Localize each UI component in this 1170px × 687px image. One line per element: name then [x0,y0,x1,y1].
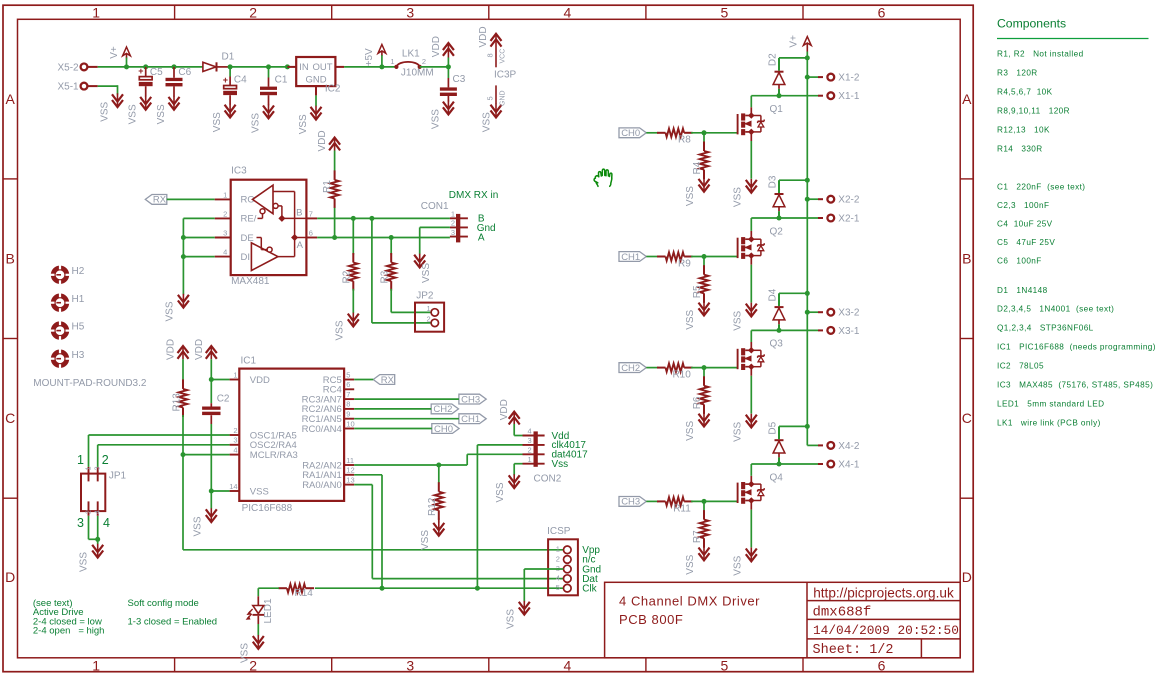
diode D2 [767,53,785,96]
wire R14 to LED1 [258,588,279,596]
connector ICSP [547,526,578,595]
ground VSS at C1 [251,105,275,134]
svg-text:A: A [6,91,16,107]
svg-text:D: D [5,569,15,585]
resistor R13 [171,359,187,454]
svg-text:C3: C3 [453,74,466,85]
ground VSS below C2 [192,508,217,536]
ground VSS at X5-1 [100,93,124,122]
svg-text:IC2 78L05: IC2 78L05 [997,362,1044,371]
label flag CH0 [619,128,646,139]
pad X4-1 [818,460,860,471]
capacitor C6 [166,67,192,97]
resistor R3 [380,238,396,313]
svg-text:14: 14 [229,482,237,491]
svg-text:3: 3 [95,466,102,470]
svg-text:CH0: CH0 [434,424,453,435]
svg-text:3: 3 [406,5,414,21]
svg-text:5: 5 [485,96,494,100]
svg-text:R5: R5 [692,285,703,298]
wire gate Q2 [691,254,738,259]
svg-text:IC1: IC1 [241,355,257,366]
svg-text:C5: C5 [150,67,163,78]
ground VSS at C6 [156,96,180,125]
title date [813,623,959,638]
capacitor C3 [440,67,466,102]
svg-text:C6: C6 [178,67,191,78]
pad X1-2 [818,73,860,84]
svg-text:4: 4 [223,248,227,257]
capacitor C2 [202,393,230,424]
wire D4 to V+ bus [779,292,807,294]
svg-text:D2,3,4,5 1N4001 (see text): D2,3,4,5 1N4001 (see text) [997,305,1114,314]
svg-text:Sheet: 1/2: Sheet: 1/2 [813,643,894,658]
svg-text:1: 1 [223,190,227,199]
svg-text:RX: RX [153,195,167,206]
ground VSS at R6 [685,413,710,441]
ground VSS at Q1 source [732,179,757,207]
svg-text:2: 2 [249,657,257,673]
svg-text:8: 8 [346,400,350,409]
ground VSS at R4 [685,178,710,206]
svg-text:1: 1 [85,466,92,470]
frame column numbers [92,5,885,674]
resistor R11 [646,497,692,514]
svg-text:X5-1: X5-1 [57,82,79,93]
svg-text:C1 220nF (see text): C1 220nF (see text) [997,182,1085,191]
wire X1-2 line [807,76,818,78]
svg-text:DI: DI [241,252,251,263]
mount pad H1 [51,293,85,312]
svg-text:R14 330R: R14 330R [997,144,1043,153]
transistor Q4 [738,472,784,509]
svg-text:C1: C1 [275,75,288,86]
svg-text:JP1: JP1 [109,471,127,482]
svg-text:A: A [478,232,485,243]
diode D5 [767,421,785,464]
svg-text:2: 2 [528,446,532,455]
svg-text:B: B [6,251,15,267]
mount pad H2 [51,265,85,284]
wire V+ bus [805,52,810,446]
svg-text:V+: V+ [109,46,120,59]
svg-text:VSS: VSS [421,263,432,283]
label flag CH2 [619,363,646,374]
svg-text:IC3: IC3 [231,165,247,176]
svg-text:6: 6 [878,5,886,21]
svg-text:VDD: VDD [194,339,205,360]
svg-text:VSS: VSS [482,112,493,132]
resistor R5 pulldown [692,257,709,303]
svg-text:4: 4 [556,574,560,583]
resistor R7 pulldown [692,501,709,547]
frame column ticks top/bottom [175,5,803,672]
svg-text:C5 47uF 25V: C5 47uF 25V [997,238,1055,247]
ground VSS at C3 [430,101,454,130]
drawing frame inner border [18,19,961,658]
pad X3-1 [818,326,860,337]
svg-text:Vss: Vss [552,459,569,470]
svg-text:LK1 wire link (PCB only): LK1 wire link (PCB only) [997,418,1101,427]
connector CON1 [421,201,468,242]
wire D5 to V+ bus [779,425,807,427]
svg-text:6: 6 [346,380,350,389]
svg-text:4: 4 [528,427,532,436]
svg-text:IC2: IC2 [325,84,341,95]
jumper JP2 [415,291,444,332]
svg-text:A: A [297,240,304,251]
label flag CH1 [459,414,486,425]
svg-text:R12,13 10K: R12,13 10K [997,125,1050,134]
pad X2-1 [818,214,860,225]
wire source Q1 [750,141,752,179]
svg-text:2: 2 [233,426,237,435]
svg-text:LED1 5mm standard LED: LED1 5mm standard LED [997,399,1105,408]
svg-text:RX: RX [381,375,395,386]
wire net A [317,235,450,240]
ground VSS at Q4 source [732,548,757,576]
wire link LK1 [390,48,433,78]
svg-text:VSS: VSS [685,421,696,441]
svg-text:R8: R8 [678,135,691,146]
svg-text:MOUNT-PAD-ROUND3.2: MOUNT-PAD-ROUND3.2 [33,378,147,389]
supply VDD at CON2 [499,399,520,424]
green label DMX RX in [449,190,498,201]
svg-text:1: 1 [233,370,237,379]
svg-text:H3: H3 [72,350,85,361]
svg-text:11: 11 [346,456,354,465]
svg-text:dmx688f: dmx688f [813,605,872,621]
svg-text:4: 4 [233,445,237,454]
ground VSS at CON1 [414,254,432,283]
supply VDD at C3 [431,36,454,67]
led LED1 [247,596,274,624]
svg-text:CON1: CON1 [421,201,449,212]
label flag CH1 [619,252,646,263]
svg-text:VSS: VSS [164,301,175,321]
wire D3 to V+ bus [779,179,807,181]
svg-text:R4: R4 [692,161,703,174]
title block box [605,582,961,658]
svg-text:VSS: VSS [334,320,345,340]
svg-text:+: + [223,75,228,85]
svg-text:X3-1: X3-1 [838,326,860,337]
net labels ICSP [582,545,601,594]
svg-text:C4 10uF 25V: C4 10uF 25V [997,219,1053,228]
svg-text:RA0/AN0: RA0/AN0 [302,480,342,491]
supply V+ at output bus [789,35,812,52]
svg-text:R4,5,6,7 10K: R4,5,6,7 10K [997,87,1053,96]
svg-text:2: 2 [102,453,109,467]
svg-text:Q2: Q2 [770,226,784,237]
mount pad H3 [51,349,85,368]
wire X2-2 line [807,198,818,200]
svg-text:CH3: CH3 [621,497,640,508]
svg-text:R1: R1 [322,180,333,193]
svg-text:IC3P: IC3P [494,70,517,81]
wire RC2 to CH2 [354,408,431,410]
frame row ticks left/right [3,179,973,498]
svg-text:VSS: VSS [732,422,743,442]
svg-text:D4: D4 [767,288,778,301]
svg-text:H2: H2 [72,266,85,277]
svg-text:RC0/AN4: RC0/AN4 [302,424,342,435]
svg-text:IC1 PIC16F688 (needs progra: IC1 PIC16F688 (needs programming) [997,343,1156,352]
svg-text:+5V: +5V [364,48,375,66]
wire RC3 to CH3 [354,398,459,400]
svg-text:http://picprojects.org.uk: http://picprojects.org.uk [813,586,954,601]
svg-text:X3-2: X3-2 [838,308,860,319]
pad X5-2 [57,62,97,73]
svg-text:J10MM: J10MM [401,68,434,79]
svg-text:4 Channel DMX Driver: 4 Channel DMX Driver [619,594,760,609]
capacitor C1 [260,67,288,105]
wire V+ rail [98,64,203,69]
resistor R6 pulldown [692,368,709,414]
svg-text:R11: R11 [673,503,691,514]
svg-text:D: D [962,569,972,585]
label flag CH3 [619,497,646,508]
svg-text:2: 2 [556,554,560,563]
wire Vpp line to ICSP [183,455,563,550]
svg-text:R14: R14 [295,588,314,599]
svg-text:IC3 MAX485 (75176, ST485, S: IC3 MAX485 (75176, ST485, SP485) [997,380,1153,389]
capacitor C4 [223,67,247,105]
svg-text:VDD: VDD [499,399,510,420]
svg-text:LED1: LED1 [263,598,274,623]
svg-text:VDD: VDD [250,375,270,386]
svg-text:C: C [5,410,15,426]
svg-text:1: 1 [528,455,532,464]
svg-text:VSS: VSS [298,114,309,134]
mount pad H5 [51,321,85,340]
components list resistor items [997,50,1084,154]
svg-text:R1, R2 Not installed: R1, R2 Not installed [997,50,1084,59]
svg-text:C4: C4 [234,75,247,86]
frame row letters [5,91,972,585]
svg-text:R13: R13 [171,393,182,412]
svg-text:+: + [138,66,143,76]
components list heading [997,17,1149,39]
ground VSS at Q2 source [732,303,757,331]
wire C2 to IC1 VSS pin14 [209,424,230,509]
wire X3-2 line [807,311,818,313]
ground VSS at R2 [334,313,359,341]
wire CON1 Gnd to VSS [420,227,450,254]
label flag CH2 [431,404,458,415]
svg-text:1: 1 [427,304,431,313]
svg-text:VSS: VSS [420,530,431,550]
wire gate Q3 [691,365,738,370]
transistor Q1 [738,104,784,141]
wire drain Q4 [751,462,818,476]
label flag CH0 [432,424,459,435]
ground VSS at Q3 source [732,414,757,442]
capacitor C5 [138,66,163,96]
wire RA0 to Dat line [354,485,563,579]
svg-text:R12: R12 [427,497,438,516]
components list capacitor items [997,182,1085,265]
svg-text:GND: GND [305,75,326,86]
ground VSS at LED1 [239,635,263,663]
wire JP1 pins 2-4 to VSS [89,516,101,544]
svg-text:D1: D1 [222,52,235,63]
title text 4 Channel DMX Driver / PCB 800F [619,594,760,628]
wire ICSP Gnd to VSS [524,569,563,602]
svg-text:VSS: VSS [156,104,167,124]
cursor hand [594,169,612,186]
svg-text:1-3 closed = Enabled: 1-3 closed = Enabled [128,616,218,627]
svg-text:RE/: RE/ [241,214,257,225]
svg-text:IN: IN [299,62,309,73]
transistor Q3 [738,339,784,376]
svg-text:7: 7 [309,209,313,218]
wire D2 to V+ bus [779,57,807,59]
svg-text:Q4: Q4 [770,472,784,483]
svg-text:VCC: VCC [500,49,507,64]
svg-text:JP2: JP2 [416,291,434,302]
svg-text:VSS: VSS [732,187,743,207]
pad X1-1 [818,91,860,102]
power symbol IC3P label [494,70,517,81]
power symbol IC3P lower pin 5 [482,85,507,132]
svg-text:VSS: VSS [685,309,696,329]
svg-text:CH2: CH2 [433,404,452,415]
svg-text:VDD: VDD [478,26,489,47]
svg-text:VDD: VDD [317,130,328,151]
svg-text:PCB 800F: PCB 800F [619,612,683,627]
svg-text:3: 3 [451,228,455,237]
wire JP1 pin3 to OSC2 [98,445,230,467]
svg-text:R3 120R: R3 120R [997,68,1038,77]
pad X2-2 [818,195,860,206]
ground VSS at ICSP [505,601,530,629]
svg-text:2: 2 [85,510,92,514]
wire drain Q2 [751,216,818,231]
svg-text:VSS: VSS [79,552,90,572]
svg-text:VSS: VSS [239,643,250,663]
wire LED1 to VSS [257,624,259,636]
svg-text:1: 1 [92,5,100,21]
wire gate Q4 [691,499,738,504]
wire MCLR net with R13 [181,452,230,457]
svg-text:X2-2: X2-2 [838,195,860,206]
wire RA1 to Clk line [354,475,382,588]
svg-text:3: 3 [528,436,532,445]
svg-text:X4-1: X4-1 [838,460,860,471]
label flag RX to IC3 [145,195,167,206]
svg-text:Clk: Clk [582,584,597,595]
svg-text:D1 1N4148: D1 1N4148 [997,286,1048,295]
green config text soft mode [128,598,218,628]
components list semiconductor items [997,286,1156,428]
wire VDD to IC1 pin1 and C2 [209,359,230,403]
svg-text:VDD: VDD [431,36,442,57]
label flag CH3 [459,394,486,405]
svg-text:D3: D3 [767,175,778,188]
wire JP1 pin1 to OSC1 [89,435,230,467]
supply VDD at IC1 pin1 [194,339,217,360]
svg-text:CH1: CH1 [461,414,480,425]
svg-text:CON2: CON2 [534,473,562,484]
wire RC1 to CH1 [354,418,459,420]
svg-text:2: 2 [427,314,431,323]
svg-text:PIC16F688: PIC16F688 [242,503,293,514]
svg-text:R2: R2 [342,270,353,283]
ground VSS at R5 [685,302,710,330]
wire IC1 RC5 to RX flag [354,379,373,381]
svg-text:VSS: VSS [495,482,506,502]
svg-text:3: 3 [223,229,227,238]
svg-text:8: 8 [485,53,494,57]
pad X4-2 [818,441,860,452]
svg-text:C2: C2 [217,393,230,404]
svg-text:MAX481: MAX481 [231,276,270,287]
svg-text:VDD: VDD [166,339,177,360]
svg-text:VSS: VSS [100,101,111,121]
resistor R12 [427,465,443,523]
svg-text:1: 1 [451,210,455,219]
ground VSS at R7 [685,547,710,575]
pad X5-1 [57,82,97,93]
svg-text:1: 1 [77,453,84,467]
svg-text:B: B [962,251,971,267]
svg-text:5: 5 [556,583,560,592]
net labels B Gnd A [477,214,496,244]
svg-text:Q1,2,3,4 STP36NF06L: Q1,2,3,4 STP36NF06L [997,324,1094,333]
svg-text:R8,9,10,11 120R: R8,9,10,11 120R [997,106,1070,115]
svg-text:2: 2 [422,57,426,66]
resistor R4 pulldown [692,133,709,179]
svg-text:CH1: CH1 [621,252,640,263]
transceiver IC3 MAX481 [215,165,318,286]
wire IC2 GND [315,95,317,106]
svg-text:B: B [296,207,302,218]
svg-text:OUT: OUT [313,62,333,73]
wire D1 to IC2 [228,64,290,69]
svg-text:A: A [962,91,972,107]
resistor R2 [342,218,358,313]
resistor R10 [646,363,692,380]
svg-text:R10: R10 [672,370,691,381]
label MOUNT-PAD-ROUND3.2 [33,378,147,389]
svg-text:6: 6 [309,229,313,238]
voltage regulator IC2 [287,57,344,95]
svg-text:7: 7 [346,390,350,399]
supply V+ top left [109,46,130,67]
svg-text:CH3: CH3 [461,394,480,405]
svg-text:C6 100nF: C6 100nF [997,256,1042,265]
wire source Q2 [750,265,752,303]
svg-text:GND: GND [500,90,507,106]
supply +5V [364,45,386,67]
diode D3 [767,175,785,218]
wire gate Q1 [691,130,738,135]
svg-text:CH2: CH2 [621,363,640,374]
title drawing name dmx688f [813,605,872,621]
svg-text:LK1: LK1 [402,48,420,59]
wire X5-1 to VSS [98,85,118,94]
svg-text:VSS: VSS [505,609,516,629]
svg-text:4: 4 [564,657,572,673]
microcontroller IC1 PIC16F688 [229,355,354,514]
wire IC3 pins 2-4 to VSS [181,218,215,294]
svg-text:2: 2 [223,209,227,218]
wire Clk line [315,586,564,591]
svg-text:X2-1: X2-1 [838,214,860,225]
ground VSS at CON2 [495,474,520,502]
svg-text:2-4 open = high: 2-4 open = high [33,626,105,637]
